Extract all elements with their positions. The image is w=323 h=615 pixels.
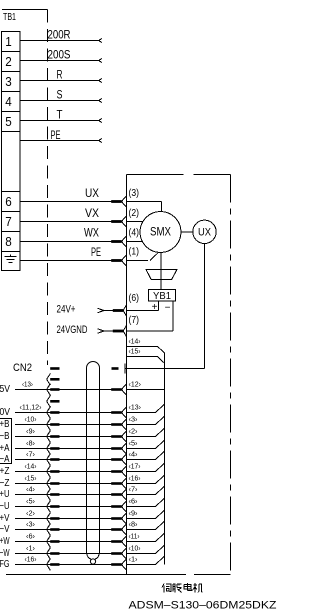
svg-text:‹16›: ‹16› [25, 554, 37, 563]
svg-text:+V: +V [0, 513, 10, 524]
wire 24V+ with arrow to pin 6 [98, 305, 127, 316]
svg-text:T: T [57, 108, 64, 122]
svg-text:VX: VX [85, 208, 99, 220]
label plus terminal [152, 302, 158, 313]
svg-text:−U: −U [0, 501, 10, 512]
terminal TB1 pin 3 [5, 74, 12, 89]
svg-text:−B: −B [0, 431, 10, 442]
terminal TB1 cell dividers [2, 52, 21, 252]
ground symbol in TB1 [5, 255, 17, 263]
svg-text:(6): (6) [129, 293, 140, 304]
brake YB1 box [149, 290, 176, 303]
label T [57, 108, 64, 122]
wire CN2 row +A [0, 438, 165, 454]
svg-text:‹6›: ‹6› [129, 496, 138, 505]
svg-text:−V: −V [0, 524, 10, 535]
pin label (3) [129, 188, 140, 199]
svg-text:TB1: TB1 [3, 12, 16, 23]
svg-text:‹5›: ‹5› [26, 496, 35, 505]
encoder UX circle [193, 220, 216, 243]
svg-text:−W: −W [0, 548, 10, 559]
servo motor enclosure right chain line [230, 175, 232, 575]
wire 24VGND with arrow to pin 7 [98, 326, 127, 337]
wire motor case shield line [125, 368, 204, 370]
svg-text:‹4›: ‹4› [26, 484, 35, 493]
motor SMX circle [140, 212, 181, 253]
wire CN2 row +W [0, 531, 165, 547]
svg-text:8: 8 [5, 234, 12, 249]
wire PE to motor pin (1) [20, 255, 148, 266]
svg-text:‹13›: ‹13› [22, 379, 33, 388]
svg-text:‹11›: ‹11› [129, 531, 140, 540]
svg-text:‹13›: ‹13› [129, 402, 142, 411]
svg-text:‹15›: ‹15› [129, 347, 141, 356]
label 200S [48, 48, 71, 62]
svg-text:+B: +B [0, 419, 10, 430]
svg-text:‹11,12›: ‹11,12› [20, 402, 42, 411]
wire pin 14 to bus [127, 347, 165, 353]
cable conductor left [87, 368, 92, 559]
node encoder AB group box [0, 419, 12, 464]
svg-text:(1): (1) [129, 247, 140, 258]
svg-text:5: 5 [5, 114, 12, 129]
wire CN2 row +B [0, 414, 165, 430]
wire CN2 row -U [0, 496, 165, 512]
svg-text:(4): (4) [129, 228, 140, 239]
cable shield arch [87, 362, 100, 369]
svg-text:‹7›: ‹7› [129, 484, 138, 493]
brake cone [146, 270, 177, 280]
label 200R [48, 28, 71, 42]
svg-text:2: 2 [5, 54, 12, 69]
wire SMX to brake stem [160, 253, 162, 290]
svg-text:YB1: YB1 [153, 291, 171, 302]
svg-text:‹10›: ‹10› [25, 414, 37, 423]
label PE [91, 247, 101, 259]
wire PE from TB1 [20, 140, 99, 142]
svg-text:R: R [57, 68, 63, 82]
terminal block TB1 label [3, 12, 16, 23]
wire CN2 row +V [0, 508, 165, 524]
wire UX to motor pin (3) [20, 196, 161, 207]
pin shield right [112, 367, 119, 370]
svg-text:‹1›: ‹1› [26, 543, 35, 552]
wire VX to motor pin (2) [20, 216, 143, 227]
wire WX to motor pin (4) [20, 236, 143, 247]
cable conductor right [95, 368, 100, 559]
pin CN2 spare upper [47, 374, 60, 386]
wire pin 3 to SMX top [160, 202, 162, 212]
servo motor enclosure left edge [126, 175, 128, 575]
svg-text:‹7›: ‹7› [26, 449, 35, 458]
wire T from TB1 [20, 120, 99, 122]
pin label (7) [129, 315, 140, 326]
svg-text:‹14›: ‹14› [129, 337, 141, 346]
terminal TB1 pin 2 [5, 54, 12, 69]
svg-text:PE: PE [91, 247, 101, 259]
wire CN2 row -Z [0, 473, 165, 489]
label UX [85, 188, 99, 200]
wire 24V+ to YB1 plus [127, 301, 159, 311]
svg-text:‹9›: ‹9› [26, 426, 35, 435]
svg-text:7: 7 [5, 214, 12, 229]
pin label (2) [129, 208, 140, 219]
svg-text:+U: +U [0, 489, 10, 500]
svg-text:4: 4 [5, 94, 12, 109]
pin label (6) [129, 293, 140, 304]
svg-text:SMX: SMX [150, 225, 171, 239]
pin label (4) [129, 228, 140, 239]
terminal TB1 pin 7 [5, 214, 12, 229]
wire CN2 row -V [0, 519, 165, 535]
terminal TB1 pin 6 [5, 194, 12, 209]
pin CN2 spare lower [47, 396, 60, 408]
svg-text:(7): (7) [129, 315, 140, 326]
svg-text:(3): (3) [129, 188, 140, 199]
svg-text:‹15›: ‹15› [25, 473, 37, 482]
wire encoder bus vertical [164, 353, 166, 565]
svg-text:CN2: CN2 [13, 362, 32, 374]
svg-text:‹4›: ‹4› [129, 449, 138, 458]
svg-text:‹5›: ‹5› [129, 438, 138, 447]
svg-text:‹3›: ‹3› [26, 519, 35, 528]
label R [57, 68, 63, 82]
label WX [84, 228, 99, 240]
label servo motor (CJK strokes) [162, 583, 203, 593]
wire CN2 row +U [0, 484, 165, 500]
servo motor enclosure top edge [127, 174, 231, 176]
svg-text:24VGND: 24VGND [57, 324, 88, 336]
svg-text:PE: PE [51, 128, 61, 142]
svg-text:5V: 5V [0, 384, 10, 395]
wire CN2 row -A [0, 449, 165, 465]
svg-text:‹12›: ‹12› [129, 379, 142, 388]
label S [57, 88, 63, 102]
wire drive enclosure dashed boundary [47, 10, 49, 366]
svg-text:1: 1 [5, 34, 12, 49]
wire 200S from TB1 [20, 60, 99, 62]
wire CN2 row +Z [0, 461, 165, 477]
wire pin 15 to bus [127, 357, 165, 364]
label 24V+ [57, 304, 76, 316]
svg-text:‹9›: ‹9› [129, 508, 138, 517]
svg-text:+: + [152, 302, 158, 313]
svg-text:‹8›: ‹8› [26, 438, 35, 447]
svg-text:UX: UX [198, 226, 212, 238]
svg-text:+A: +A [0, 443, 10, 454]
svg-text:‹2›: ‹2› [26, 508, 35, 517]
label PE [51, 128, 61, 142]
svg-text:+Z: +Z [0, 466, 10, 477]
terminal TB1 pin 1 [5, 34, 12, 49]
terminal block TB1 outline [2, 32, 21, 271]
svg-text:‹16›: ‹16› [129, 473, 141, 482]
svg-text:UX: UX [85, 188, 99, 200]
wire 200R from TB1 [20, 40, 99, 42]
svg-text:200S: 200S [48, 48, 71, 62]
svg-text:‹3›: ‹3› [129, 414, 138, 423]
svg-text:−Z: −Z [0, 478, 10, 489]
servo motor enclosure bottom edge [6, 574, 231, 576]
wire CN2 row 5V [0, 379, 165, 395]
wire 24VGND to YB1 minus [127, 301, 174, 331]
terminal TB1 pin 8 [5, 234, 12, 249]
svg-text:24V+: 24V+ [57, 304, 76, 316]
wire UX down to case line [204, 244, 206, 369]
node case tick on motor edge [124, 364, 126, 374]
svg-text:6: 6 [5, 194, 12, 209]
terminal TB1 pin 5 [5, 114, 12, 129]
label 24VGND [57, 324, 88, 336]
wire SMX to UX [181, 231, 193, 233]
pin shield left [50, 367, 59, 370]
svg-text:−: − [165, 303, 171, 314]
wire CN2 row -B [0, 426, 165, 442]
svg-text:ADSM–S130–06DM25DKZ: ADSM–S130–06DM25DKZ [129, 600, 277, 612]
svg-text:WX: WX [84, 228, 99, 240]
svg-text:3: 3 [5, 74, 12, 89]
pin label 15 [129, 347, 141, 356]
pin label (1) [129, 247, 140, 258]
svg-text:‹6›: ‹6› [26, 531, 35, 540]
connector CN2 label [13, 362, 32, 374]
wire pin 1 diagonal to SMX bottom [150, 253, 158, 261]
svg-text:+W: +W [0, 536, 10, 547]
svg-text:‹14›: ‹14› [25, 461, 37, 470]
svg-text:S: S [57, 88, 63, 102]
svg-text:(2): (2) [129, 208, 140, 219]
terminal TB1 pin 4 [5, 94, 12, 109]
node power wire arrows [99, 38, 102, 142]
wire CN2 row 0V [0, 402, 165, 418]
label motor model ADSM-S130-06DM25DKZ [129, 600, 277, 612]
label VX [85, 208, 99, 220]
label minus terminal [165, 303, 171, 314]
pin label 14 [129, 337, 141, 346]
svg-text:‹17›: ‹17› [129, 461, 141, 470]
wire S from TB1 [20, 100, 99, 102]
wire CN2 row FG [0, 554, 165, 570]
svg-text:200R: 200R [48, 28, 71, 42]
cable shield drain loop [90, 559, 95, 564]
svg-text:FG: FG [0, 559, 10, 570]
svg-text:‹8›: ‹8› [129, 519, 138, 528]
wire drive enclosure top edge [2, 9, 48, 11]
svg-text:0V: 0V [0, 407, 10, 418]
svg-text:‹1›: ‹1› [129, 554, 138, 563]
svg-text:‹10›: ‹10› [129, 543, 141, 552]
svg-text:‹2›: ‹2› [129, 426, 138, 435]
wire CN2 row -W [0, 543, 165, 559]
wire R from TB1 [20, 80, 99, 82]
